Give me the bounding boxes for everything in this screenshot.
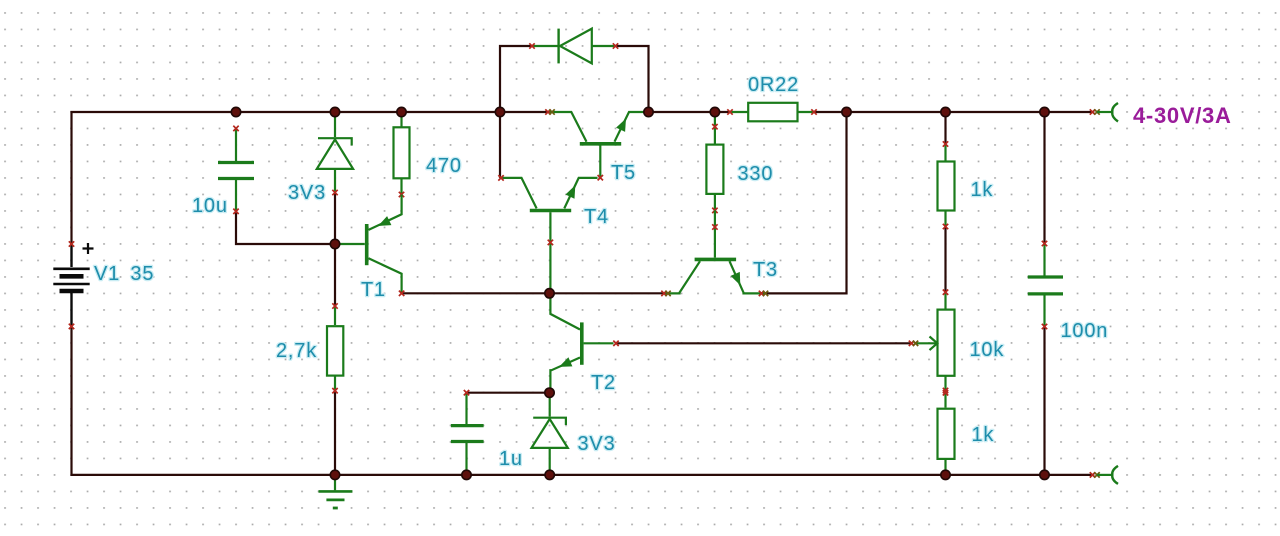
svg-text:10k: 10k	[970, 339, 1005, 361]
wire 1k bottom to 10k top	[944, 227, 946, 293]
svg-text:1k: 1k	[972, 424, 995, 446]
diode D2	[529, 29, 618, 64]
wire diode bridge left	[500, 46, 532, 112]
node A1 junction	[231, 107, 240, 116]
svg-text:4-30V/3A: 4-30V/3A	[1133, 103, 1232, 128]
zener diode D1 3V3	[317, 112, 353, 195]
node C1 junction	[330, 470, 339, 479]
node C5 junction	[1040, 470, 1049, 479]
svg-text:0R22: 0R22	[748, 74, 799, 96]
svg-text:T3: T3	[753, 259, 778, 281]
node A2 junction	[330, 107, 339, 116]
wire 10u bottom to T1 base node	[236, 211, 335, 244]
svg-text:330: 330	[738, 163, 774, 185]
wire 100n top lead	[1043, 112, 1045, 244]
transistor T2	[550, 293, 618, 392]
wire node 500 down to T4 collector	[499, 112, 501, 178]
node B2 junction	[545, 289, 554, 298]
svg-text:T5: T5	[611, 162, 636, 184]
node A5 junction	[644, 107, 653, 116]
resistor R2 0R22	[727, 103, 816, 122]
ground	[319, 475, 353, 508]
svg-text:1u: 1u	[499, 448, 523, 470]
node A4 junction	[495, 107, 504, 116]
wire zener D1 cathode node down to 2,7k	[334, 193, 336, 307]
resistor R3 330	[706, 112, 723, 213]
node C4 junction	[941, 470, 950, 479]
capacitor C3 100n	[1028, 241, 1063, 329]
svg-text:T4: T4	[584, 206, 609, 228]
transistor T5	[545, 109, 646, 180]
wire top rail right segments	[649, 111, 1093, 113]
wire left rail bottom and bottom rail	[72, 326, 1093, 475]
transistor T4	[498, 175, 597, 245]
resistor R7 1k	[938, 390, 955, 475]
wire diode bridge right	[616, 46, 649, 112]
svg-text:T1: T1	[361, 279, 386, 301]
svg-text:2,7k: 2,7k	[276, 340, 317, 362]
capacitor C2 1u	[451, 390, 484, 475]
svg-text:3V3: 3V3	[288, 182, 326, 204]
wire 1k top lead	[944, 112, 946, 144]
potentiometer R6 10k	[909, 290, 955, 394]
battery V1	[53, 241, 93, 329]
node C2 junction	[462, 470, 471, 479]
wire T2 base to 10k wiper	[616, 342, 912, 344]
terminal output plus	[1090, 103, 1118, 122]
terminal output minus	[1090, 466, 1118, 484]
node C3 junction	[545, 470, 554, 479]
wire T4 base to mid node	[549, 242, 551, 293]
node A8 junction	[941, 107, 950, 116]
node A9 junction	[1040, 107, 1049, 116]
wire T1 collector to T3 base	[402, 292, 665, 294]
svg-text:1k: 1k	[971, 179, 994, 201]
wire 2,7k bottom to ground rail	[334, 391, 336, 475]
svg-text:10u: 10u	[192, 195, 228, 217]
node A7 junction	[842, 107, 851, 116]
node A3 junction	[397, 107, 406, 116]
svg-text:T2: T2	[591, 372, 616, 394]
transistor T1	[335, 195, 404, 296]
node A6 junction	[710, 107, 719, 116]
capacitor C1 10u	[218, 126, 254, 214]
node B1 junction	[330, 239, 339, 248]
wire top rail left and left rail	[72, 112, 549, 244]
svg-text:100n: 100n	[1061, 320, 1109, 342]
transistor T3	[661, 210, 768, 296]
resistor R5 1k	[938, 141, 955, 229]
resistor R1 470	[394, 112, 410, 197]
zener diode D3 3V3	[532, 393, 568, 475]
svg-text:V1 35: V1 35	[94, 263, 154, 285]
node B3 junction	[545, 388, 554, 397]
svg-text:3V3: 3V3	[578, 433, 616, 455]
wire 100n bottom lead	[1043, 327, 1045, 475]
wire 1u top to T2 emitter node	[467, 392, 550, 394]
svg-text:470: 470	[426, 155, 462, 177]
wire T3 emitter to top rail	[765, 112, 847, 293]
resistor R4 2,7k	[327, 303, 343, 393]
